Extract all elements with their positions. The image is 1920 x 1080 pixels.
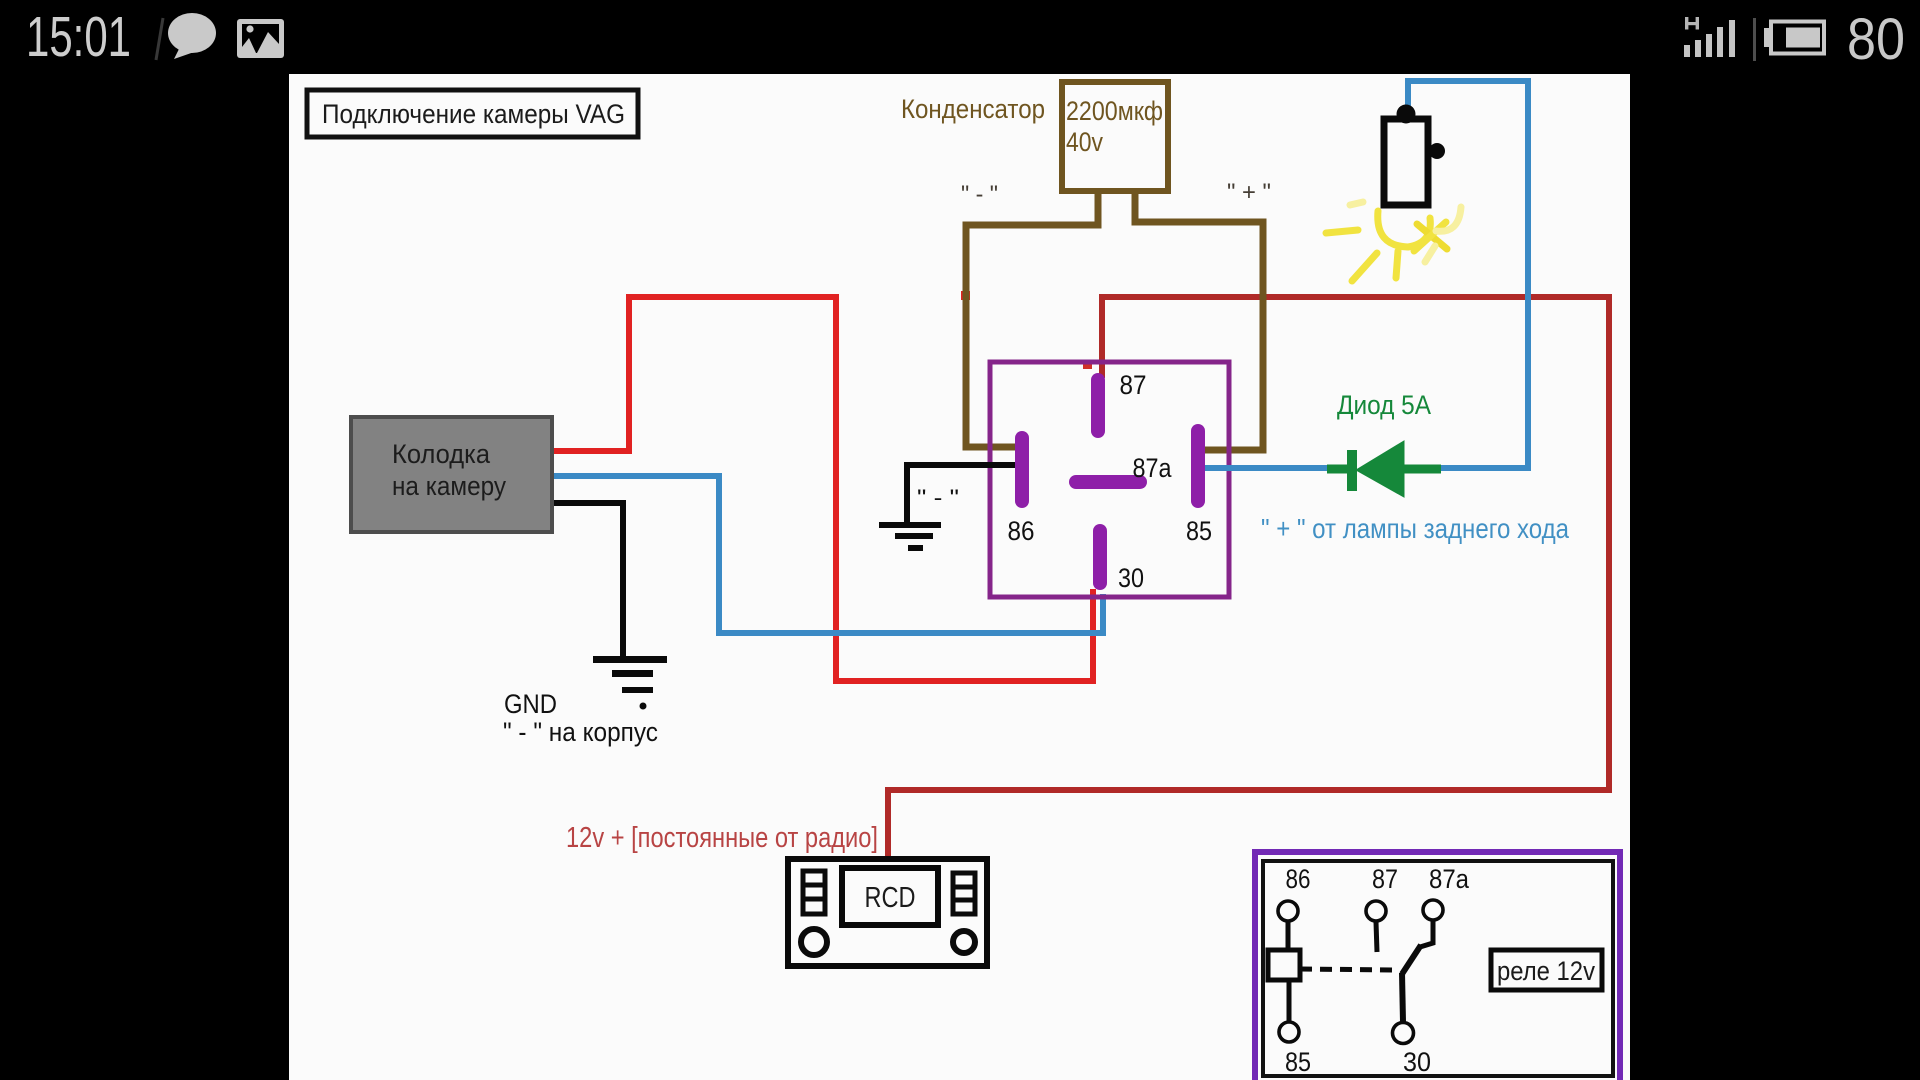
relay pinout legend box xyxy=(1255,852,1620,1080)
svg-text:Диод 5А: Диод 5А xyxy=(1337,390,1431,420)
wire 87 stub xyxy=(1376,922,1377,952)
status bar battery icon xyxy=(1764,22,1824,54)
svg-text:" + " от лампы заднего хода: " + " от лампы заднего хода xyxy=(1261,513,1569,544)
status bar slash xyxy=(156,18,163,60)
реле 12v box xyxy=(1491,950,1602,990)
wire blue diode to reverse lamp xyxy=(1408,81,1528,468)
status bar chat bubble icon xyxy=(168,13,216,59)
wire red A camera-power to pin30 xyxy=(552,297,1093,681)
capacitor C1 box xyxy=(1062,82,1168,191)
svg-text:реле 12v: реле 12v xyxy=(1497,956,1595,986)
camera connector box (Колодка) xyxy=(351,417,552,532)
svg-text:87a: 87a xyxy=(1429,864,1470,894)
wire blue camera-signal to pin30 area xyxy=(552,476,1103,633)
svg-text:87: 87 xyxy=(1120,370,1147,400)
wire brown capacitor minus lead xyxy=(966,192,1098,447)
svg-text:2200мкф: 2200мкф xyxy=(1066,96,1163,126)
wire black pin86 to ground xyxy=(907,465,1020,524)
wire black camera ground xyxy=(552,503,623,657)
wire 87a stub xyxy=(1420,921,1433,947)
title box xyxy=(307,90,638,137)
svg-text:86: 86 xyxy=(1286,864,1311,894)
lamp L1 (reverse lamp) xyxy=(1384,105,1445,206)
svg-text:" - " на корпус: " - " на корпус xyxy=(503,717,658,747)
wire blue pin85 to diode xyxy=(1205,465,1330,471)
svg-text:на камеру: на камеру xyxy=(392,471,506,501)
pin circle 85 xyxy=(1279,1022,1299,1042)
relay pin 86 xyxy=(1015,438,1029,501)
svg-text:" + ": " + " xyxy=(1227,179,1271,206)
white diagram canvas xyxy=(289,74,1630,1080)
svg-text:40v: 40v xyxy=(1066,127,1103,157)
relay pin 30 xyxy=(1093,531,1107,583)
relay coil xyxy=(1268,950,1300,980)
svg-text:85: 85 xyxy=(1285,1047,1311,1077)
status bar image icon xyxy=(237,19,284,58)
wire coil to 85 xyxy=(1287,980,1292,1021)
dashed actuation line xyxy=(1300,969,1398,970)
wire brown capacitor plus lead xyxy=(1135,192,1263,450)
wire dark-red 12v feed RCD to pin87 xyxy=(888,297,1609,859)
status bar separator xyxy=(1753,18,1756,61)
lamp glow rays xyxy=(1326,202,1461,281)
svg-text:Подключение камеры VAG: Подключение камеры VAG xyxy=(322,99,625,129)
node red mark at relay border xyxy=(1083,361,1092,369)
status bar H network indicator xyxy=(1685,17,1699,30)
status bar signal bars xyxy=(1684,20,1735,57)
wire 86 to coil xyxy=(1286,922,1291,950)
svg-text:RCD: RCD xyxy=(865,882,916,914)
svg-text:87: 87 xyxy=(1372,864,1398,894)
svg-text:15:01: 15:01 xyxy=(26,5,131,69)
relay K1 box xyxy=(990,362,1229,597)
svg-text:30: 30 xyxy=(1118,563,1144,593)
ground (camera GND symbol) xyxy=(593,656,667,710)
wire arm to 30 xyxy=(1402,973,1403,1022)
pin circle 86 xyxy=(1278,901,1298,921)
relay pin 87 xyxy=(1091,380,1105,431)
svg-text:85: 85 xyxy=(1186,516,1212,546)
node red junction on brown wire xyxy=(961,291,970,300)
svg-text:" - ": " - " xyxy=(917,485,959,510)
relay pin 87a xyxy=(1076,475,1140,489)
pin circle 87a xyxy=(1423,900,1443,920)
svg-text:Конденсатор: Конденсатор xyxy=(901,94,1045,124)
relay pin 85 xyxy=(1191,431,1205,501)
pin circle 87 xyxy=(1366,901,1386,921)
svg-text:12v + [постоянные от радио]: 12v + [постоянные от радио] xyxy=(566,822,878,854)
switch arm xyxy=(1402,945,1421,974)
svg-text:30: 30 xyxy=(1403,1047,1431,1077)
pin circle 30 xyxy=(1393,1023,1414,1044)
svg-text:87a: 87a xyxy=(1133,453,1173,483)
svg-text:" - ": " - " xyxy=(961,181,998,208)
diode D1 5A xyxy=(1327,441,1441,497)
ground (relay pin86 symbol) xyxy=(879,522,941,551)
svg-text:GND: GND xyxy=(504,689,557,719)
radio RCD head unit xyxy=(788,859,987,966)
svg-text:86: 86 xyxy=(1008,516,1035,546)
svg-text:80: 80 xyxy=(1847,7,1905,72)
svg-text:Колодка: Колодка xyxy=(392,439,491,469)
